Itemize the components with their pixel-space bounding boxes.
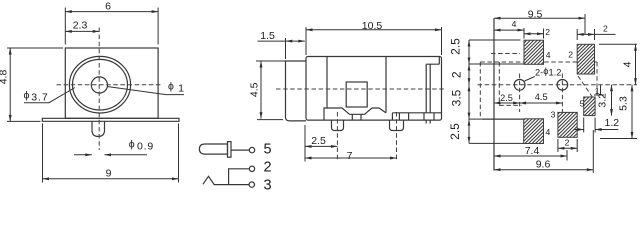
svg-text:5: 5: [264, 141, 272, 157]
body outline dashed right: [596, 62, 598, 97]
dim 4 top: [494, 19, 524, 30]
dim 2.5 side: [305, 125, 337, 162]
svg-text:7.4: 7.4: [525, 145, 540, 157]
leg 1: [332, 120, 344, 130]
plug flange bar: [228, 142, 232, 158]
hole1 vertical centerline: [519, 74, 521, 113]
outer circle: [69, 56, 130, 113]
svg-text:4: 4: [622, 61, 634, 67]
dim 4 right: [599, 44, 637, 85]
dim 9: [43, 124, 179, 183]
side view main body: [306, 57, 442, 121]
vertical centerline: [98, 28, 100, 151]
contact slot: [426, 64, 439, 123]
svg-text:4.5: 4.5: [248, 82, 260, 97]
dim 9.5: [494, 8, 585, 34]
stem to contact 5: [231, 149, 249, 151]
dim 2 pad1: [524, 27, 550, 39]
svg-text:3.2: 3.2: [597, 93, 609, 108]
svg-text:3: 3: [551, 110, 556, 120]
dim 1 right: [594, 85, 604, 96]
front view mounting flange: [42, 118, 179, 121]
side centerline: [276, 88, 446, 90]
leg 2: [390, 120, 404, 130]
diagonal dashed to pad5: [578, 76, 592, 97]
dim 6: [65, 1, 158, 45]
contact circle 5: [249, 147, 254, 152]
front view body: [65, 48, 158, 118]
svg-text:7: 7: [347, 150, 353, 162]
svg-text:2-ϕ1.2: 2-ϕ1.2: [535, 66, 561, 78]
hole2 vertical centerline: [561, 74, 563, 113]
svg-text:4: 4: [546, 127, 551, 137]
right shelf strip: [392, 112, 441, 114]
holes centerline: [478, 84, 638, 86]
svg-text:2.3: 2.3: [73, 20, 88, 32]
label dia 3.7: [24, 88, 76, 104]
svg-text:9: 9: [106, 168, 112, 180]
svg-text:4.5: 4.5: [535, 92, 548, 102]
leg2 centerline: [396, 112, 398, 161]
svg-text:2: 2: [565, 138, 570, 148]
svg-text:4: 4: [546, 50, 551, 60]
barrel outline dashed: [491, 54, 521, 106]
contact circle 2: [249, 166, 254, 171]
svg-text:1.5: 1.5: [260, 30, 275, 42]
dim 0.9 pin: [74, 139, 154, 155]
svg-text:2: 2: [568, 50, 573, 60]
contact circle 3: [249, 182, 254, 187]
internal tray line: [324, 108, 386, 120]
shelf divider a: [398, 113, 400, 120]
svg-text:5: 5: [580, 98, 585, 108]
svg-text:9.6: 9.6: [536, 159, 551, 171]
front pin (0.9mm): [92, 121, 105, 136]
leg1 centerline: [336, 112, 338, 161]
svg-text:2.5: 2.5: [449, 38, 463, 55]
dim 4.8: [0, 48, 63, 121]
shelf divider c: [423, 113, 425, 120]
svg-text:ϕ3.7: ϕ3.7: [24, 90, 49, 104]
left reference line: [493, 18, 495, 171]
chain dimension line: [468, 40, 471, 143]
dim 7.4: [494, 145, 567, 161]
svg-text:ϕ1: ϕ1: [168, 81, 184, 95]
chain ext top: [469, 39, 521, 41]
top right notch: [438, 57, 440, 65]
dim 10.5: [306, 20, 442, 55]
shelf divider d: [433, 113, 435, 120]
chain ext row3: [469, 118, 482, 120]
bottom outline solid: [482, 118, 523, 120]
wire to 3: [203, 176, 249, 184]
svg-text:6: 6: [105, 1, 111, 13]
svg-text:3.5: 3.5: [450, 89, 464, 106]
svg-text:3: 3: [264, 178, 272, 194]
dim 2.5 holes: [494, 93, 520, 103]
svg-text:1.2: 1.2: [605, 117, 620, 129]
terminal window square: [346, 82, 367, 107]
svg-text:10.5: 10.5: [362, 20, 383, 32]
pad 2 top-right: [577, 44, 594, 74]
svg-text:5.3: 5.3: [618, 96, 630, 111]
inner ring circle: [73, 59, 128, 110]
internal divider left: [326, 57, 328, 109]
svg-text:2: 2: [450, 71, 464, 78]
shelf left edge: [391, 113, 393, 120]
dim 4.5 holes: [520, 92, 563, 103]
horizontal centerline: [57, 84, 163, 86]
dim 5.3: [600, 85, 637, 139]
chain ext pad1 bottom: [469, 63, 524, 65]
body outline dashed top: [480, 61, 597, 63]
pad 4 bottom-middle: [558, 112, 577, 137]
hole 1: [514, 79, 525, 90]
pad 5 right-middle: [584, 97, 595, 116]
center tab: [352, 114, 361, 120]
label 2-dia1.2: [525, 66, 562, 81]
switch wire to 2: [229, 169, 250, 185]
dim 2 pad4: [558, 138, 577, 153]
svg-text:2.5: 2.5: [311, 135, 326, 147]
pad 1 top-left: [524, 40, 544, 64]
svg-text:2: 2: [603, 23, 608, 33]
dim 4.5: [248, 61, 286, 120]
dim 2 pad2: [577, 23, 615, 40]
svg-text:9.5: 9.5: [528, 8, 543, 20]
plug body: [199, 144, 227, 154]
svg-text:ϕ0.9: ϕ0.9: [129, 139, 154, 153]
svg-text:2.5: 2.5: [500, 93, 513, 103]
svg-text:2: 2: [545, 27, 550, 37]
hole 2: [557, 80, 568, 91]
dim 7: [305, 150, 397, 162]
dim 9.6: [494, 130, 593, 173]
chain ext bottom: [469, 142, 524, 144]
svg-text:4: 4: [512, 19, 517, 29]
svg-text:4.8: 4.8: [0, 70, 9, 85]
dim 1.2: [574, 117, 620, 133]
label dia 1: [107, 81, 184, 95]
barrel bushing: [286, 61, 307, 121]
svg-text:2.5: 2.5: [448, 123, 462, 140]
svg-text:2: 2: [264, 159, 272, 175]
internal divider right: [385, 57, 387, 113]
shelf divider b: [408, 113, 410, 120]
dim 1.5: [258, 30, 305, 59]
center hole circle (1mm): [91, 77, 107, 93]
dim 3.2: [597, 85, 612, 116]
dim 2.3: [65, 20, 99, 32]
pad 3 bottom-left: [524, 119, 544, 144]
body outline dashed left: [479, 62, 481, 119]
